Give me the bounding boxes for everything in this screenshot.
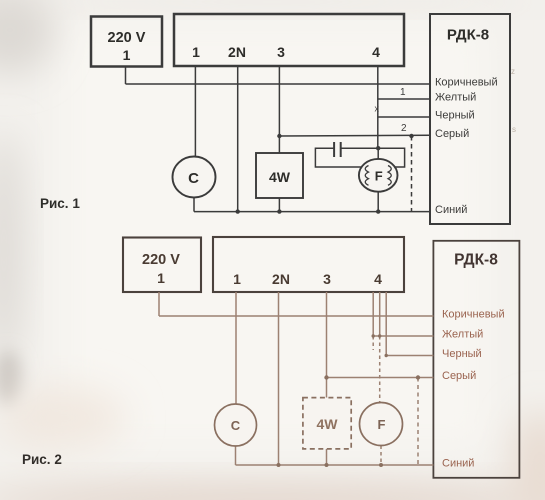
wire: 220V pin 1 drop (fig1) <box>125 67 127 85</box>
svg-text:3: 3 <box>277 44 285 60</box>
svg-text:z: z <box>511 67 515 76</box>
labels figure 2 <box>142 252 498 434</box>
wire: 220V pin 1 drop (fig2) <box>158 292 160 316</box>
svg-text:220 V: 220 V <box>142 252 180 268</box>
wire: capacitor loop left segment (fig1) <box>315 148 378 167</box>
svg-text:РДК-8: РДК-8 <box>447 27 489 44</box>
wire: dashed drop from grey node (fig1) <box>411 136 413 212</box>
svg-text:x: x <box>375 104 380 114</box>
junction riser a/yellow (fig2) <box>372 334 375 337</box>
svg-text:РДК-8: РДК-8 <box>454 252 498 269</box>
svg-text:2: 2 <box>401 123 407 134</box>
junction node 4/cap loop (fig1) <box>376 146 380 150</box>
junction riser c/black (fig2) <box>385 354 388 357</box>
wire: C bottom stub (fig1) <box>193 197 195 212</box>
terminal block box (fig1) <box>174 14 404 66</box>
capacitor C1 plates (fig1) <box>333 142 335 157</box>
svg-text:F: F <box>375 169 383 184</box>
wire: 4W bottom stub (fig2) <box>326 449 328 465</box>
motor C symbol (fig1) <box>173 157 216 198</box>
junction grey/dashed drop (fig1) <box>409 134 413 138</box>
svg-text:220 V: 220 V <box>108 30 146 46</box>
svg-text:Желтый: Желтый <box>442 329 483 341</box>
svg-text:Серый: Серый <box>442 370 476 382</box>
junction 4W/blue (fig2) <box>325 463 329 467</box>
junction node 3/grey (fig1) <box>277 134 281 138</box>
svg-text:1: 1 <box>192 44 200 60</box>
junction 2N/blue (fig1) <box>236 209 240 213</box>
labels figure 1 <box>108 27 490 188</box>
junction F/blue (fig1) <box>376 209 380 213</box>
wire: F bottom stub (fig1) <box>377 190 379 212</box>
motor C symbol (fig2) <box>215 404 257 446</box>
motor F symbol (fig2) <box>360 403 403 446</box>
box РДК-8 (fig2) <box>433 241 519 478</box>
svg-text:C: C <box>231 418 241 433</box>
svg-text:4W: 4W <box>317 416 339 432</box>
junction node 3/grey (fig2) <box>324 375 328 379</box>
box 220V supply (fig1) <box>91 17 162 67</box>
svg-text:Синий: Синий <box>435 204 467 216</box>
wire: terminal 3 riser to 4W (fig1) <box>278 66 280 153</box>
junction F/blue (fig2) <box>379 463 383 467</box>
svg-text:Коричневый: Коричневый <box>442 309 505 321</box>
wire: black line to РДК-8 (fig1) <box>378 116 430 118</box>
heater 4W box (fig1) <box>256 153 303 198</box>
wire: grey line from node 3 to РДК-8 (fig2) <box>327 377 434 379</box>
wire: terminal 2N riser (fig1) <box>237 66 239 212</box>
svg-text:2N: 2N <box>228 44 246 60</box>
svg-text:1: 1 <box>157 270 165 286</box>
svg-text:1: 1 <box>123 47 131 63</box>
svg-text:4W: 4W <box>269 169 291 185</box>
terminal block box (fig2) <box>213 237 404 292</box>
wire: F bottom stub (fig2) <box>380 446 382 466</box>
svg-text:F: F <box>378 417 386 432</box>
wire: blue bottom line to РДК-8 (fig2) <box>236 464 434 466</box>
wire: dashed drop from grey node (fig2) <box>417 378 419 466</box>
wire: yellow line to РДК-8 (fig2) <box>373 335 433 337</box>
wire: black line to РДК-8 (fig2) <box>386 355 433 357</box>
junction riser b/yellow (fig2) <box>378 334 381 337</box>
svg-text:s: s <box>512 125 516 134</box>
wire: terminal 3 riser to 4W (fig2) <box>326 292 328 398</box>
svg-text:C: C <box>188 170 199 187</box>
wire: terminal 2N riser (fig2) <box>278 292 280 465</box>
svg-text:Рис. 1: Рис. 1 <box>40 196 80 211</box>
svg-text:Черный: Черный <box>435 110 475 122</box>
svg-text:Коричневый: Коричневый <box>435 77 498 89</box>
svg-text:2N: 2N <box>272 271 290 287</box>
junction 4W/blue (fig1) <box>277 209 281 213</box>
wire: terminal 4 riser c (fig2) <box>385 292 387 356</box>
svg-text:Желтый: Желтый <box>435 92 476 104</box>
junction 2N/blue (fig2) <box>277 463 281 467</box>
svg-text:3: 3 <box>323 271 331 287</box>
wire: C bottom stub (fig2) <box>235 446 237 465</box>
svg-text:Синий: Синий <box>442 458 474 470</box>
svg-text:1: 1 <box>233 271 241 287</box>
wire: terminal 4 riser a (fig2) <box>372 292 374 336</box>
winding squiggle right of F (fig1) <box>388 166 391 186</box>
wire: 4W bottom stub (fig1) <box>278 198 280 212</box>
heater 4W box dashed (fig2) <box>303 398 351 449</box>
junction grey/dashed drop (fig2) <box>416 375 420 379</box>
svg-text:1: 1 <box>400 87 406 98</box>
wire: terminal 4 riser (fig1) <box>377 66 379 148</box>
svg-text:Черный: Черный <box>442 348 482 360</box>
svg-text:4: 4 <box>372 44 380 60</box>
wire: F top stub (fig1) <box>377 148 379 160</box>
wire: brown line to РДК-8 (fig1) <box>126 83 431 85</box>
winding squiggle left of F (fig1) <box>365 166 368 186</box>
wire: terminal 1 riser to C (fig1) <box>194 66 196 157</box>
svg-text:Рис. 2: Рис. 2 <box>22 452 62 467</box>
wire: blue bottom line to РДК-8 (fig1) <box>194 211 430 213</box>
svg-text:4: 4 <box>374 271 382 287</box>
motor F symbol (fig1) <box>359 159 398 192</box>
wire: terminal 4 riser b (fig2) <box>379 292 381 336</box>
wire: terminal 1 riser to C (fig2) <box>235 292 237 404</box>
box 220V supply (fig2) <box>123 238 201 293</box>
wire: brown line to РДК-8 (fig2) <box>159 315 433 317</box>
box РДК-8 (fig1) <box>430 14 510 224</box>
wire: yellow line to РДК-8 (fig1) <box>378 98 430 100</box>
wire: grey line from node 3 to РДК-8 (fig1) <box>279 134 430 137</box>
wire: capacitor loop right segment (fig1) <box>341 148 405 167</box>
svg-text:Серый: Серый <box>435 128 469 140</box>
